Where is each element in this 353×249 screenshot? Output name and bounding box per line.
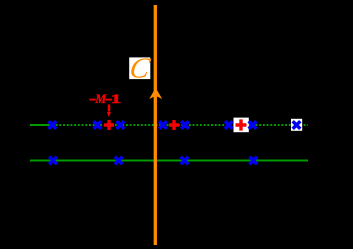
pole x bottom line 4 [250, 157, 258, 165]
pole x bottom line 2 [115, 157, 123, 165]
pole x bottom line 1 [49, 157, 57, 165]
pole x right of center + [181, 121, 189, 129]
pole x bottom line 3 [181, 157, 189, 165]
annotation arrowhead (red) [107, 112, 111, 117]
white label box for C [129, 57, 150, 79]
boxed pole x marker [293, 121, 301, 129]
white box around boxed plus marker [234, 118, 249, 133]
contour C vertical orange line [154, 5, 157, 245]
pole x at -3 (top line) [49, 121, 57, 129]
pole x left of -M-1 [94, 121, 102, 129]
boxed zero + marker (larger) [236, 119, 247, 130]
zero + at -M-1 [104, 120, 114, 130]
pole x left of boxed + [225, 121, 233, 129]
svg-text:1: 1 [111, 92, 122, 106]
pole x right of -M-1 [117, 121, 125, 129]
bottom real-axis line (solid green) [30, 160, 308, 162]
zero + center [169, 120, 179, 130]
white box around boxed x marker [291, 119, 302, 131]
svg-text:M: M [94, 92, 107, 106]
label -M-1 [89, 92, 121, 106]
top line dotted green segment [52, 124, 308, 126]
top line solid green segment [30, 124, 52, 126]
annotation arrow line (red) [108, 104, 110, 111]
arrowhead on contour C [149, 88, 162, 99]
pole x left of center + [159, 121, 167, 129]
pole x right of boxed + [249, 121, 257, 129]
